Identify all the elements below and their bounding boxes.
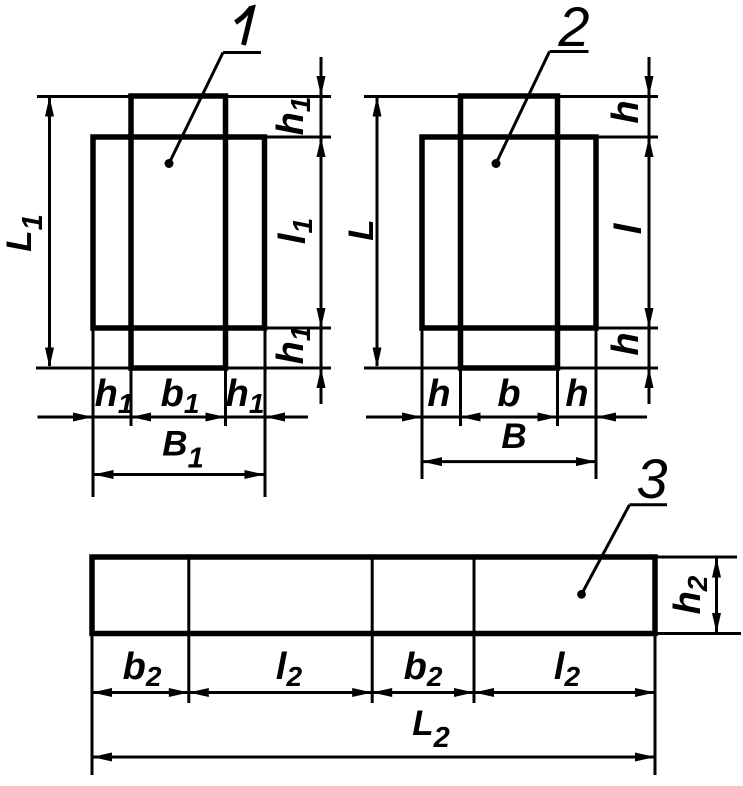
svg-text:b: b bbox=[497, 373, 520, 415]
leader 2 dot bbox=[492, 159, 501, 168]
extension line below right (B) bbox=[595, 330, 598, 479]
dimension h1 right outside arrow (bottom row) bbox=[265, 413, 285, 422]
dimension h top outside arrow bbox=[648, 57, 651, 404]
svg-text:h: h bbox=[605, 332, 647, 355]
dimension h bottom outside arrow bbox=[645, 368, 654, 388]
leader 2 line bbox=[496, 52, 550, 164]
svg-text:h: h bbox=[605, 100, 647, 123]
part 2 vertical rectangle (outline) bbox=[461, 96, 558, 368]
leader 1 dot bbox=[165, 159, 174, 168]
extension line below left (B) bbox=[421, 330, 424, 479]
dimension chain line (b2,l2,b2,l2) bbox=[92, 691, 655, 694]
extension line below right-mid (b) bbox=[556, 370, 559, 426]
extension line below right (B1) bbox=[264, 330, 267, 497]
leader 3 underline bbox=[630, 503, 668, 506]
dimension L line bbox=[376, 98, 379, 366]
extension line right upper (l top) bbox=[597, 136, 659, 139]
dimension L2 line bbox=[93, 756, 654, 759]
dimension b1 line bbox=[131, 413, 151, 422]
divider line 2 (l2/b2) bbox=[371, 558, 374, 703]
extension line bottom (L / h bottom) bbox=[364, 367, 658, 370]
svg-text:L: L bbox=[342, 219, 381, 240]
dimension l1 line bbox=[317, 137, 326, 157]
dimension L1 line bbox=[48, 98, 51, 366]
extension line below right (L2) bbox=[654, 636, 657, 775]
svg-text:3: 3 bbox=[636, 447, 667, 510]
extension line top (L / h top) bbox=[364, 95, 658, 98]
part 3 rectangle (outline) bbox=[92, 557, 655, 634]
svg-text:h: h bbox=[427, 373, 450, 415]
dimension h left outside arrow (bottom row) bbox=[366, 416, 647, 419]
extension line right bottom (h2) bbox=[655, 632, 741, 635]
extension line below left-mid (b1) bbox=[130, 370, 133, 426]
dimension h1 bottom outside arrow bbox=[317, 368, 326, 388]
leader 2 underline bbox=[550, 50, 589, 53]
leader 3 dot bbox=[577, 590, 586, 599]
extension line bottom (L1 / h1 bottom) bbox=[36, 367, 331, 370]
extension line right lower (l bottom) bbox=[597, 327, 659, 330]
dimension h1 top outside arrow bbox=[320, 57, 323, 404]
svg-text:h: h bbox=[565, 373, 588, 415]
leader 1 underline bbox=[223, 51, 261, 54]
dimension B1 line bbox=[95, 473, 264, 476]
dimension b line bbox=[461, 413, 481, 422]
extension line right lower (l1 bottom) bbox=[265, 327, 331, 330]
leader 3 line bbox=[582, 505, 630, 595]
part 1 vertical rectangle (outline) bbox=[131, 96, 226, 368]
dimension h right outside arrow (bottom row) bbox=[596, 413, 616, 422]
extension line below right-mid (b1) bbox=[224, 370, 227, 426]
extension line right top (h2) bbox=[655, 556, 737, 559]
part 1 horizontal rectangle (outline) bbox=[93, 137, 265, 328]
dimension h1 left outside arrow (bottom row) bbox=[38, 416, 309, 419]
extension line below left-mid (b) bbox=[459, 370, 462, 426]
extension line top (L1 / h1 top) bbox=[37, 95, 331, 98]
svg-text:B: B bbox=[501, 417, 526, 456]
leader 1 line bbox=[169, 53, 223, 164]
dimension l line bbox=[645, 137, 654, 157]
extension line right upper (l1 top) bbox=[265, 136, 331, 139]
part 2 horizontal rectangle (outline) bbox=[422, 137, 596, 328]
divider line 1 (b2/l2) bbox=[187, 558, 190, 703]
extension line below left (L2) bbox=[91, 636, 94, 775]
extension line below left (B1) bbox=[92, 330, 95, 497]
dimension B line bbox=[423, 460, 595, 463]
svg-text:2: 2 bbox=[557, 0, 589, 58]
leader 1 digit bbox=[236, 8, 253, 45]
divider line 3 (b2/l2) bbox=[473, 558, 476, 703]
dimension h2 line bbox=[715, 558, 718, 633]
svg-text:l: l bbox=[608, 222, 650, 234]
